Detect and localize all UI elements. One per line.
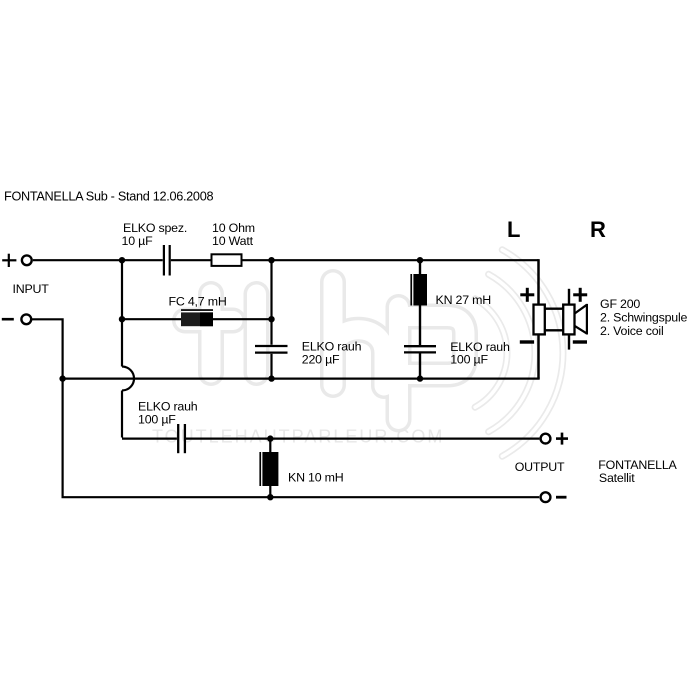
speaker plus right (573, 288, 587, 302)
svg-text:ELKO rauh: ELKO rauh (138, 400, 198, 414)
wire bottom section y=438 (186, 438, 540, 440)
svg-text:TOUTLEHAUTPARLEUR.COM: TOUTLEHAUTPARLEUR.COM (152, 427, 444, 447)
junction mid-bottom at 271.5 (268, 375, 274, 381)
voice coil 2 rect (563, 305, 574, 335)
voice coil 2 stub top (568, 289, 570, 305)
speaker GF 200 (520, 288, 587, 350)
wire mid-bottom rail (63, 378, 540, 380)
svg-text:KN 27 mH: KN 27 mH (436, 293, 492, 307)
junction mid-bottom left (59, 375, 65, 381)
capacitor C3 ELKO rauh 100 µF (404, 346, 436, 352)
junction top-mid (268, 257, 274, 263)
svg-text:220 µF: 220 µF (302, 353, 340, 367)
svg-text:2. Schwingspule: 2. Schwingspule (600, 310, 688, 324)
node: output plus terminal (541, 433, 568, 445)
capacitor C4 ELKO rauh 100 µF bottom (178, 424, 185, 453)
speaker minus left (520, 340, 534, 343)
svg-text:10 Watt: 10 Watt (212, 234, 254, 248)
svg-text:KN 10 mH: KN 10 mH (288, 470, 344, 484)
svg-text:2. Voice coil: 2. Voice coil (600, 324, 664, 338)
svg-text:FONTANELLA Sub - Stand 12.06.2: FONTANELLA Sub - Stand 12.06.2008 (4, 189, 213, 203)
junction mid-row left (119, 316, 125, 322)
coil connect bars (545, 309, 563, 331)
svg-text:L: L (507, 217, 520, 242)
svg-text:10 µF: 10 µF (122, 234, 154, 248)
wire vertical x=271.5 (270, 260, 272, 378)
svg-text:Satellit: Satellit (599, 471, 635, 485)
node: input minus terminal (2, 314, 31, 324)
wire KN10 branch (269, 439, 271, 498)
svg-text:ELKO rauh: ELKO rauh (302, 340, 362, 354)
inductor L1 FC 4,7 mH (181, 309, 213, 326)
wire right vertical (537, 259, 540, 379)
svg-text:GF 200: GF 200 (600, 297, 640, 311)
junction bottom rail at KN10 (267, 494, 273, 500)
node: input plus terminal (2, 254, 32, 267)
svg-text:FC 4,7 mH: FC 4,7 mH (169, 294, 227, 308)
svg-text:INPUT: INPUT (13, 282, 50, 296)
svg-text:OUTPUT: OUTPUT (515, 460, 565, 474)
wire KN27 branch (419, 260, 421, 378)
speaker plus left (520, 288, 534, 302)
node: output minus terminal (541, 492, 567, 502)
capacitor C1 ELKO spez. 10 µF (164, 245, 170, 276)
svg-text:R: R (590, 217, 606, 242)
junction top at KN27 (417, 257, 423, 263)
voice coil 1 rect (534, 305, 545, 335)
resistor R1 10 Ohm 10 Watt (212, 254, 242, 266)
wire middle row (122, 318, 272, 320)
inductor L3 KN 10 mH (259, 452, 278, 486)
junction y438 at KN10 (267, 435, 273, 441)
junction mid-row right (268, 316, 274, 322)
junction mid-bottom at 420 (417, 375, 423, 381)
junction top-left (119, 257, 125, 263)
svg-text:10 Ohm: 10 Ohm (212, 221, 255, 235)
svg-text:100 µF: 100 µF (450, 353, 488, 367)
voice coil 2 stub bottom (568, 334, 570, 349)
cone (575, 304, 587, 335)
inductor L2 KN 27 mH (410, 274, 427, 306)
capacitor C2 ELKO rauh 220 µF (255, 346, 288, 353)
watermark tlhp logo (185, 250, 563, 456)
speaker minus right (573, 340, 587, 343)
wire from minus input down (31, 319, 539, 497)
svg-text:100 µF: 100 µF (138, 413, 176, 427)
svg-text:ELKO spez.: ELKO spez. (123, 221, 187, 235)
wire left vertical from + input (122, 260, 177, 438)
svg-text:FONTANELLA: FONTANELLA (598, 458, 677, 472)
wire top rail (33, 259, 539, 261)
